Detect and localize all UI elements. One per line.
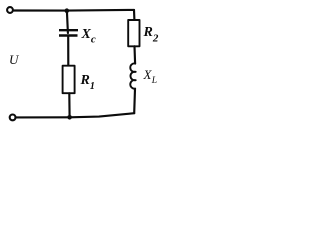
wire XL to bottom corner <box>133 89 136 113</box>
wire R1 to bottom <box>68 93 70 117</box>
terminal bottom-left <box>10 115 16 121</box>
svg-text:U: U <box>9 52 20 67</box>
wire junction to capacitor <box>67 11 68 33</box>
node bottom junction <box>67 115 72 120</box>
resistor R2 <box>128 20 139 46</box>
node top junction <box>65 8 70 13</box>
wire bottom horizontal <box>16 113 134 117</box>
wire R2 to XL <box>133 46 136 63</box>
wire capacitor to R1 <box>67 36 69 66</box>
terminal top-left <box>7 7 13 13</box>
wire R2 top lead <box>133 10 136 20</box>
wire top horizontal <box>14 9 134 12</box>
resistor R1 <box>63 66 75 94</box>
inductor XL <box>130 63 135 88</box>
capacitor XC bottom plate <box>59 34 78 36</box>
capacitor XC top plate <box>59 29 78 31</box>
